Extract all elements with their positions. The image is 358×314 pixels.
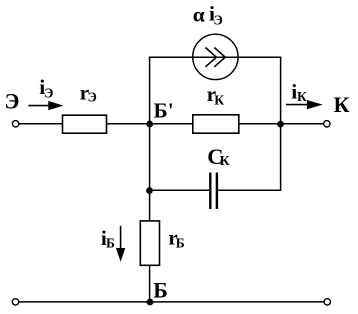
wire vertical left branch (top corner down to rБ) — [149, 57, 151, 221]
wire rК to node К — [239, 123, 281, 125]
terminal К (open circle, collector) — [324, 121, 330, 127]
wire node К to terminal К — [281, 123, 324, 125]
label rК — [207, 82, 225, 108]
svg-text:К: К — [334, 92, 350, 117]
node Б junction dot — [147, 299, 154, 306]
svg-text:Б: Б — [106, 236, 115, 251]
wire cap branch right — [218, 189, 281, 191]
svg-text:К: К — [220, 153, 230, 168]
wire top horizontal through current source — [149, 56, 282, 58]
wire Э terminal to rЭ — [19, 123, 63, 125]
wire cap branch left — [150, 189, 210, 191]
label СК — [207, 144, 230, 169]
current source chevron 2 — [214, 48, 225, 67]
svg-text:Б': Б' — [154, 99, 174, 123]
svg-text:Б: Б — [176, 236, 185, 251]
current source α·iЭ circle — [193, 34, 238, 79]
wire rЭ to rК through node Б' — [107, 123, 193, 125]
svg-text:Б: Б — [153, 277, 168, 302]
current arrow iК — [286, 100, 323, 109]
svg-text:Э: Э — [44, 86, 53, 101]
resistor rБ — [140, 221, 159, 265]
svg-text:α: α — [193, 3, 205, 27]
label rЭ — [80, 81, 97, 105]
resistor rЭ — [63, 115, 107, 133]
label iЭ — [39, 75, 53, 100]
current arrow iЭ — [28, 101, 63, 110]
node capacitor junction dot — [146, 187, 153, 194]
terminal bottom-right (open circle) — [324, 299, 330, 305]
capacitor СК plate left — [209, 173, 211, 210]
terminal bottom-left (open circle) — [12, 299, 18, 305]
label iК — [291, 79, 307, 104]
svg-text:К: К — [214, 93, 224, 108]
label rБ — [168, 226, 185, 251]
svg-text:Э: Э — [5, 88, 20, 113]
node К junction dot — [277, 121, 284, 128]
label α iЭ — [193, 2, 223, 28]
terminal Э (open circle, emitter) — [12, 121, 18, 127]
node Б' junction dot — [146, 121, 153, 128]
capacitor СК plate right — [216, 173, 218, 210]
svg-text:Э: Э — [214, 13, 223, 28]
svg-text:К: К — [297, 89, 307, 104]
wire right vertical (current source to cap corner) — [280, 57, 282, 192]
resistor rК — [193, 115, 239, 133]
wire rБ to bottom wire — [149, 265, 151, 302]
current source chevron 1 — [206, 48, 217, 67]
wire bottom — [19, 301, 324, 303]
svg-text:Э: Э — [88, 89, 97, 104]
current arrow iБ — [116, 226, 125, 262]
label iБ — [101, 226, 115, 251]
